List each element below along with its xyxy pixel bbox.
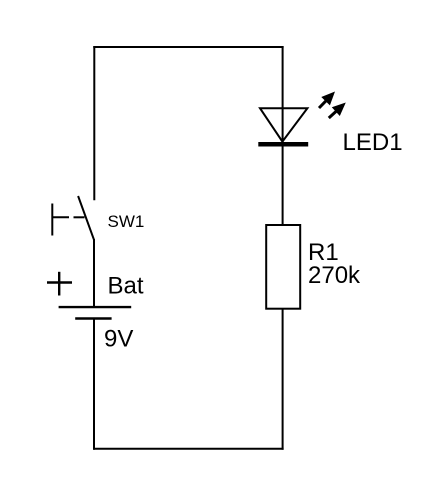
wire bottom <box>93 448 283 450</box>
wire left lower <box>93 319 95 450</box>
svg-text:9V: 9V <box>104 326 133 353</box>
wire right upper <box>282 46 284 225</box>
svg-text:SW1: SW1 <box>108 212 145 231</box>
resistor R1 <box>266 225 300 309</box>
svg-text:Bat: Bat <box>108 273 144 300</box>
wire top <box>93 46 283 48</box>
wire left upper <box>93 46 95 200</box>
wire right lower <box>282 309 284 450</box>
LED LED1 <box>258 108 308 144</box>
svg-text:LED1: LED1 <box>343 129 403 156</box>
switch SW1 <box>52 196 95 240</box>
LED light arrows <box>319 92 346 119</box>
wire left middle <box>93 239 95 307</box>
svg-text:270k: 270k <box>308 262 361 289</box>
battery Bat <box>47 272 131 319</box>
